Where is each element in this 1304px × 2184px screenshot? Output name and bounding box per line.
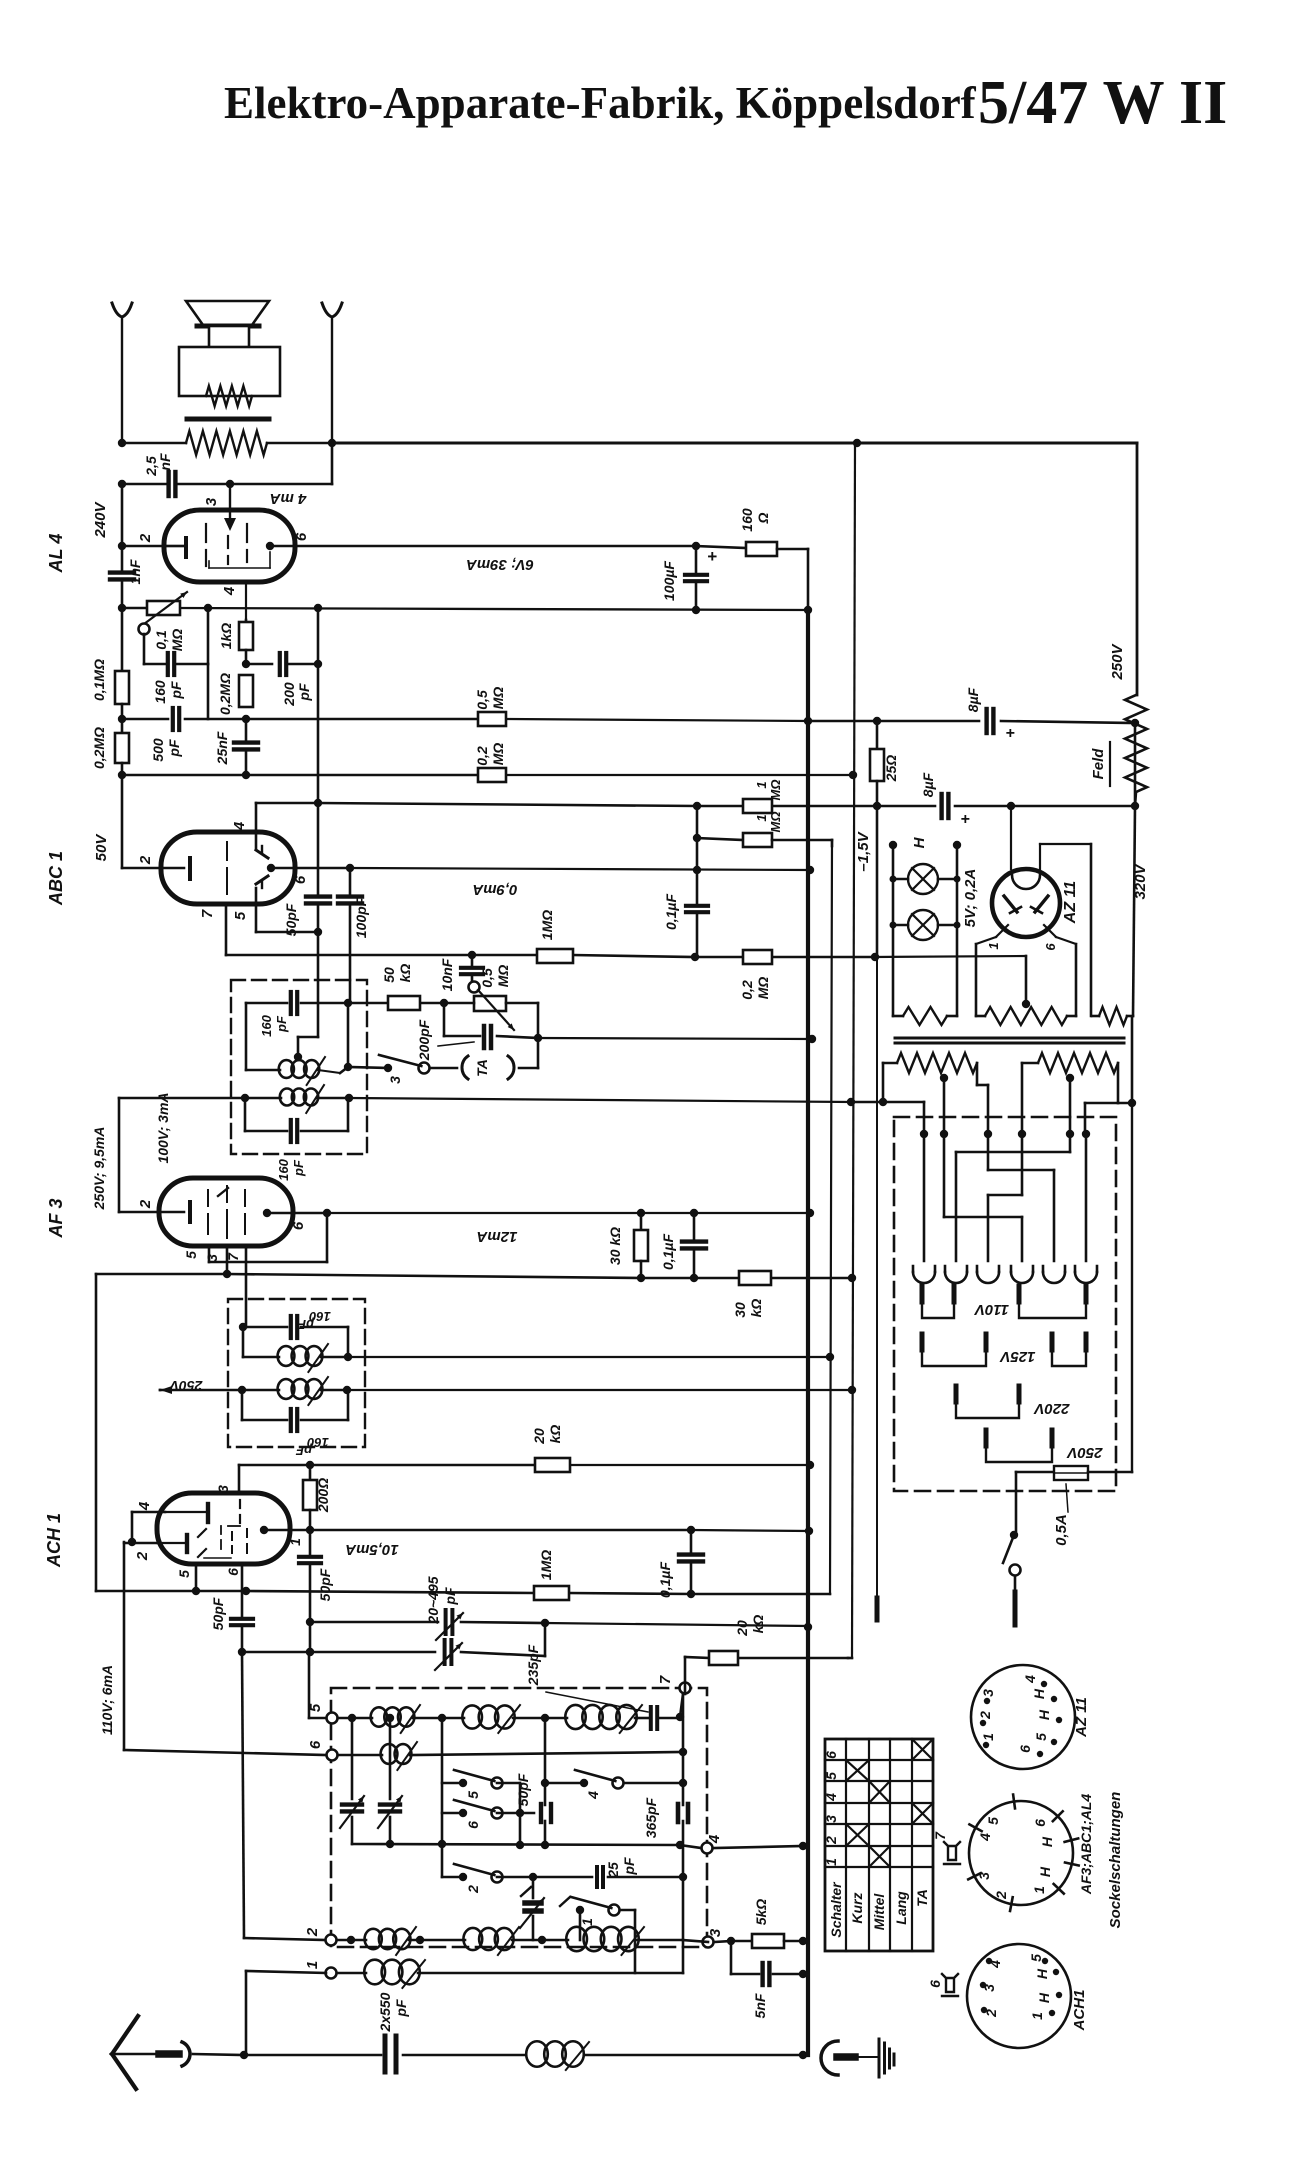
AF3 pin7 wire [245, 1246, 248, 1327]
AL4 internal beam connection [209, 552, 270, 568]
svg-text:220V: 220V [1032, 1400, 1070, 1417]
osc trimmer 1 [340, 1714, 364, 1844]
junction top bus at x857 [853, 439, 861, 447]
osc coil A1 [371, 1705, 420, 1733]
ABC1 anode dot pin6 [267, 864, 295, 872]
junction rowB right [679, 1748, 687, 1756]
junction y1003 x444 [440, 999, 448, 1007]
selector crisscross [924, 1134, 1086, 1261]
svg-text:6V; 39mA: 6V; 39mA [466, 556, 534, 573]
capacitor 1nF on cathode line [110, 559, 143, 584]
junction y1278 x852 [848, 1274, 856, 1282]
svg-text:1: 1 [754, 781, 769, 788]
output transformer winding resistor [122, 431, 332, 455]
ABC1 grid dash [226, 842, 228, 894]
svg-text:H: H [1039, 1836, 1055, 1847]
svg-text:pF: pF [166, 739, 182, 758]
capacitor 365pF [643, 1797, 688, 1838]
label 5V 0,2A [962, 869, 979, 928]
svg-text:2: 2 [137, 1199, 154, 1209]
wire x442 down [441, 1718, 444, 1877]
AZ11 dome [1012, 875, 1040, 889]
socket AZ11 pins [977, 1675, 1062, 1757]
svg-text:1MΩ: 1MΩ [539, 910, 555, 940]
svg-text:H: H [1031, 1688, 1047, 1699]
label AF3 [46, 1198, 66, 1238]
svg-text:H: H [1036, 1709, 1052, 1720]
junction x691 y1594 [687, 1590, 695, 1598]
junction x1135 y806 [1131, 802, 1139, 810]
wire IF2 out y1357 [348, 1356, 830, 1358]
primary left winding [879, 1053, 988, 1133]
svg-text:4: 4 [231, 821, 248, 831]
wire AF3 grid feed [118, 1098, 121, 1212]
svg-text:0,2MΩ: 0,2MΩ [91, 727, 107, 769]
osc row 2 wire [338, 1940, 708, 1942]
AF3 anode dot pin6 [263, 1209, 293, 1217]
ACH1 pin3 wire [215, 1465, 239, 1493]
lamp rail left [889, 841, 897, 1016]
ABC1 pin5 wire [232, 888, 318, 932]
svg-text:pF: pF [296, 683, 312, 702]
label pin6 ACH1 [225, 1568, 241, 1576]
label 0,9mA [472, 881, 517, 898]
svg-text:5nF: 5nF [752, 1993, 768, 2018]
label 320V [1132, 862, 1149, 899]
svg-text:pF: pF [393, 1999, 409, 2018]
rail x830 [830, 840, 832, 1594]
wire feld to dot [1135, 792, 1136, 806]
svg-text:7: 7 [199, 909, 216, 918]
svg-text:6: 6 [1043, 943, 1058, 951]
IF1 left rail [245, 1003, 248, 1070]
junction IF1 sec left [241, 1094, 249, 1102]
svg-text:0,5: 0,5 [474, 690, 490, 710]
junction -1.5V rail y1102 [847, 1098, 855, 1106]
junction rowD x442 [438, 1840, 446, 1848]
IF1 secondary cap 160pF [245, 1098, 348, 1181]
svg-text:2: 2 [134, 1551, 151, 1561]
junction x122 y719 [118, 715, 126, 723]
svg-text:1: 1 [986, 942, 1001, 949]
svg-text:pF: pF [274, 1015, 289, 1033]
speaker output terminal right [322, 303, 342, 443]
junction IF1 x348 top [344, 999, 352, 1007]
wire 50k row y1003 [348, 1003, 538, 1038]
ABC1 pin4 wire [231, 803, 318, 849]
svg-text:MΩ: MΩ [755, 977, 771, 1000]
antenna coil [526, 2041, 589, 2070]
svg-text:5: 5 [183, 1251, 199, 1259]
link 110V [922, 1286, 1086, 1318]
wire sw5 right [497, 1782, 520, 1785]
svg-text:kΩ: kΩ [750, 1615, 766, 1634]
tube AF3 envelope [159, 1178, 293, 1246]
wire 500pF branch [122, 664, 246, 719]
junction y1390 x852 [848, 1386, 856, 1394]
svg-text:20: 20 [531, 1428, 547, 1445]
label 0,1MOhm [91, 659, 107, 701]
svg-text:5: 5 [465, 1791, 481, 1799]
junction rowD x390 [386, 1840, 394, 1848]
junction x1011 y806 [1007, 802, 1015, 810]
svg-text:1nF: 1nF [127, 559, 143, 584]
svg-text:0,1MΩ: 0,1MΩ [91, 659, 107, 701]
wire x310 to y1652 [306, 1622, 314, 1656]
transformer core [895, 1038, 1124, 1043]
ground symbol [879, 2039, 894, 2077]
svg-text:1MΩ: 1MΩ [538, 1550, 554, 1580]
resistor 1MOhm row806 [743, 780, 783, 813]
ABC1 pin2 wire [122, 855, 184, 868]
tube ABC1 envelope [161, 832, 295, 904]
wire sw2 right [497, 1873, 592, 1881]
svg-text:50: 50 [381, 967, 397, 983]
svg-text:4: 4 [1022, 1675, 1038, 1684]
label -1,5V [855, 830, 872, 871]
resistor 20kOhm second [709, 1615, 766, 1665]
junction x310 y1622 [306, 1618, 314, 1626]
wire terminal5 up [306, 1648, 326, 1718]
svg-text:4: 4 [823, 1793, 839, 1802]
svg-text:+: + [960, 811, 969, 828]
svg-text:200: 200 [281, 682, 297, 707]
primary left tap [940, 1074, 948, 1133]
wire sw6 right [497, 1812, 534, 1815]
svg-text:250V; 9,5mA: 250V; 9,5mA [91, 1127, 107, 1211]
capacitor 50pF second [210, 1591, 253, 1656]
tube AL4 envelope [164, 510, 295, 582]
junction rowA x442 [438, 1714, 446, 1722]
dial lamp 2 [890, 910, 961, 940]
tube AZ11 envelope [992, 869, 1060, 937]
resistor 1MOhm y955 [537, 910, 573, 963]
switch 3 wave contact [379, 1055, 430, 1084]
heater winding right [1092, 1007, 1133, 1025]
resistor 30kOhm vertical [607, 1213, 648, 1278]
switch 2 osc [442, 1864, 503, 1894]
svg-text:7: 7 [932, 1831, 948, 1840]
svg-text:1: 1 [579, 1918, 595, 1926]
svg-text:4: 4 [136, 1501, 153, 1511]
svg-text:0,1µF: 0,1µF [663, 894, 679, 931]
ABC1 pin7 wire [199, 904, 472, 955]
junction y1357 x830 [826, 1353, 834, 1361]
svg-text:100pF: 100pF [353, 897, 369, 938]
svg-text:25Ω: 25Ω [883, 755, 899, 783]
rail -1,5V x852 [852, 443, 855, 1658]
svg-text:0,5: 0,5 [479, 968, 495, 988]
junction rowA right [676, 1713, 684, 1721]
junction y608 x208 [204, 604, 212, 612]
svg-text:kΩ: kΩ [748, 1299, 764, 1318]
selector dashed box [894, 1117, 1116, 1491]
ACH1 anode dot pin1 [260, 1526, 303, 1546]
terminal 7 [657, 1675, 691, 1693]
svg-text:110V: 110V [973, 1301, 1009, 1318]
wire y1622 [310, 1622, 808, 1626]
capacitor 0,1uF af3 [660, 1213, 706, 1278]
label pin6 ABC1 [292, 875, 309, 884]
svg-text:AZ 11: AZ 11 [1062, 881, 1079, 924]
svg-text:3: 3 [980, 1689, 996, 1697]
oscillator dashed box [331, 1688, 707, 1947]
AL4 grid dashes [206, 524, 247, 566]
socket AF3 speaker pin7 [932, 1831, 960, 1864]
switch position table [823, 1739, 933, 1951]
junction x808 y610 [804, 606, 812, 614]
ACH1 top grid [165, 1504, 208, 1522]
rail x1135 caps [1133, 723, 1135, 1016]
label 100pF [353, 897, 369, 938]
svg-text:0,2: 0,2 [474, 746, 490, 766]
svg-text:AF3;ABC1;AL4: AF3;ABC1;AL4 [1078, 1794, 1094, 1896]
svg-text:5: 5 [232, 911, 249, 920]
svg-text:6: 6 [927, 1980, 943, 1988]
label 0,2MOhm [91, 727, 107, 769]
IF1 secondary coil [280, 1085, 324, 1113]
resistor 30kOhm horizontal [732, 1271, 771, 1318]
osc coil C1 [365, 1927, 416, 1955]
IF2 secondary wire [160, 1389, 852, 1392]
svg-text:4: 4 [585, 1791, 601, 1800]
potentiometer 0,1MOhm [140, 592, 187, 651]
terminal 5 [307, 1703, 338, 1723]
junction x350 y868 [346, 864, 354, 872]
wire TA left to switch [424, 1067, 457, 1070]
junction x310 y1465 [306, 1461, 314, 1469]
socket AF3 label [1078, 1794, 1094, 1896]
svg-text:3: 3 [823, 1815, 839, 1823]
svg-text:pF: pF [442, 1587, 458, 1606]
AF3 cathode [188, 1202, 192, 1222]
terminal 2 [304, 1927, 337, 1945]
junction x318 y664 [314, 660, 322, 668]
svg-text:2: 2 [977, 1711, 993, 1720]
wire y1103 right [1085, 1099, 1136, 1133]
resistor 5kOhm [752, 1899, 807, 1948]
svg-text:MΩ: MΩ [490, 687, 506, 710]
svg-text:20: 20 [734, 1620, 750, 1637]
label ABC1 [46, 851, 66, 906]
junction IF2 sec left [238, 1386, 246, 1394]
socket AF3 pins [968, 1795, 1078, 1911]
svg-text:2: 2 [137, 533, 154, 543]
svg-text:kΩ: kΩ [397, 964, 413, 983]
wire 20k osc return [685, 1657, 852, 1694]
label 12mA [477, 1228, 518, 1245]
capacitor 10nF [439, 955, 483, 991]
svg-text:25nF: 25nF [214, 731, 230, 765]
svg-text:MΩ: MΩ [169, 629, 185, 652]
label H [911, 836, 928, 848]
svg-text:ACH1: ACH1 [1071, 1990, 1088, 2032]
svg-text:30: 30 [732, 1302, 748, 1318]
junction x697 y870 [693, 866, 701, 874]
svg-text:TA: TA [474, 1059, 490, 1077]
wire x318 50pF [306, 803, 330, 932]
svg-text:3: 3 [204, 1254, 220, 1262]
switch 4 osc [541, 1770, 687, 1800]
ACH1 cathode [157, 1535, 187, 1552]
svg-text:2: 2 [823, 1836, 839, 1845]
svg-text:160: 160 [152, 680, 168, 704]
svg-text:110V; 6mA: 110V; 6mA [99, 1665, 115, 1735]
osc coil B1 [381, 1742, 417, 1770]
svg-text:1: 1 [980, 1733, 996, 1741]
svg-text:0,1µF: 0,1µF [660, 1234, 676, 1271]
label pin4 AL4 [221, 586, 238, 596]
capacitor 0,1uF ach1 [657, 1530, 703, 1598]
svg-text:160: 160 [259, 1014, 274, 1036]
capacitor 100uF [661, 546, 717, 610]
wire top bus to right [332, 442, 1137, 445]
junction x545 y1623 [541, 1619, 549, 1627]
IF1 primary coil [246, 1057, 348, 1085]
tube ACH1 envelope [157, 1493, 290, 1564]
junction y870 x810 [806, 866, 814, 874]
wire fuse to switch [1015, 1472, 1018, 1535]
junction x318 y803 [314, 799, 322, 807]
svg-text:Mittel: Mittel [871, 1893, 887, 1931]
junction 01uF top [690, 1209, 698, 1217]
osc trimmer 2 [378, 1714, 402, 1844]
osc row 1 wire [338, 1940, 683, 1973]
resistor 50kOhm [381, 964, 420, 1010]
svg-text:6: 6 [1032, 1819, 1048, 1827]
wire x96 down [95, 1274, 98, 1591]
svg-text:1kΩ: 1kΩ [218, 623, 234, 650]
AF3 pin2 wire [119, 1199, 184, 1212]
junction row2 x542 [538, 1936, 546, 1944]
selector socket cups [913, 1266, 1097, 1283]
junction y608 x697 [692, 606, 700, 614]
svg-text:Ω: Ω [755, 512, 771, 524]
svg-text:1: 1 [287, 1538, 303, 1546]
svg-text:5: 5 [176, 1570, 192, 1578]
resistor 0,2MOhm third [474, 743, 506, 782]
junction x877 y721 [873, 717, 881, 725]
wire anode y1530 [290, 1530, 809, 1531]
svg-text:pF: pF [297, 1317, 315, 1332]
ACH1 pin6 wire [242, 1564, 250, 1595]
label 100V 3mA [155, 1092, 171, 1163]
svg-text:200pF: 200pF [416, 1019, 432, 1061]
junction x520 y1813 [516, 1809, 524, 1817]
capacitor 200pF [246, 653, 318, 707]
rail fused mains x1132 [1131, 1017, 1134, 1472]
svg-text:3: 3 [203, 497, 220, 506]
wire grid row y775 [122, 774, 853, 777]
svg-text:6: 6 [290, 1221, 307, 1230]
svg-text:Feld: Feld [1090, 748, 1107, 780]
label Sockelschaltungen [1107, 1792, 1124, 1929]
svg-text:Elektro-Apparate-Fabrik, Köppe: Elektro-Apparate-Fabrik, Köppelsdorf [224, 78, 977, 128]
svg-text:pF: pF [291, 1159, 306, 1177]
resistor 1kOhm [239, 620, 253, 664]
capacitor 50pF osc box [515, 1773, 551, 1822]
wire AF3 bus y1274 [96, 1274, 852, 1278]
link 125V [922, 1334, 1086, 1366]
capacitor 0,1uF supply [663, 870, 708, 957]
svg-text:Sockelschaltungen: Sockelschaltungen [1107, 1792, 1124, 1929]
svg-text:50V: 50V [93, 833, 110, 862]
rail x545 [544, 1718, 547, 1845]
wire pin6 down x244 [242, 1652, 326, 1940]
svg-text:25: 25 [605, 1862, 621, 1879]
wire y955 [472, 955, 875, 957]
label pin3 AL4 [203, 497, 220, 506]
svg-text:0,2MΩ: 0,2MΩ [217, 673, 233, 715]
socket ACH1 speaker pin6 [927, 1974, 958, 1996]
wire x160 from 250V [159, 1389, 162, 1392]
junction x246 y775 [242, 771, 250, 779]
svg-text:AZ 11: AZ 11 [1073, 1697, 1090, 1738]
svg-text:0,5A: 0,5A [1053, 1514, 1070, 1546]
svg-text:Lang: Lang [893, 1891, 909, 1925]
label AL4 [46, 534, 66, 574]
wire antenna row [244, 2054, 803, 2057]
svg-text:6: 6 [465, 1821, 481, 1829]
heater winding 5V [893, 1007, 957, 1025]
socket AF3 circle [969, 1801, 1073, 1905]
junction rowD x520 [516, 1841, 524, 1849]
IF2 primary cap 160pF [243, 1309, 348, 1338]
osc row A wire [338, 1717, 680, 1720]
svg-text:4: 4 [706, 1834, 723, 1844]
label 20-495pF [425, 1576, 458, 1624]
junction y608 x318 [314, 604, 322, 612]
AF3 grid dashes [208, 1186, 245, 1238]
wire y1102 to selector [851, 1102, 924, 1133]
feld coil [1090, 695, 1147, 792]
HV winding [976, 956, 1076, 1025]
label 110V 6mA [99, 1665, 115, 1735]
label 235pF [525, 1644, 648, 1712]
switch 6 osc [442, 1800, 503, 1829]
junction anode x696 [692, 542, 700, 550]
wire x318 into IF1 [317, 932, 320, 1037]
selector contact dots [920, 1130, 1090, 1138]
svg-text:200Ω: 200Ω [315, 1478, 331, 1513]
svg-text:H: H [911, 836, 928, 848]
svg-text:0,9mA: 0,9mA [472, 881, 517, 898]
wire cathode down [124, 1542, 326, 1755]
thick rail x808 [806, 610, 810, 2055]
socket ACH1 label [1071, 1990, 1088, 2032]
wire 160pF branch [144, 608, 208, 664]
lamp rail right [953, 841, 961, 1016]
junction IF2 sec right [343, 1386, 351, 1394]
osc coil C3 [566, 1927, 644, 1955]
wire grid row y719 [246, 719, 808, 721]
capacitor 50pF osc [299, 1530, 333, 1622]
svg-text:6: 6 [292, 875, 309, 884]
junction rowA x545 [541, 1714, 549, 1722]
primary right tap [1066, 1074, 1074, 1133]
AZ11 pin1 [976, 925, 1008, 1016]
junction row2 x351 [347, 1936, 355, 1944]
junction anode feed [226, 480, 234, 488]
resistor 200 Ohm [303, 1465, 331, 1530]
svg-text:MΩ: MΩ [768, 812, 783, 833]
wire TA out y1039 [538, 1038, 812, 1039]
osc coil C2 [463, 1927, 519, 1955]
IF1 secondary wire [119, 1098, 851, 1102]
AF3 pin gridbus [223, 1246, 231, 1278]
capacitor 160pF [152, 653, 184, 704]
wire 200pF trimmer branch [444, 1003, 538, 1038]
